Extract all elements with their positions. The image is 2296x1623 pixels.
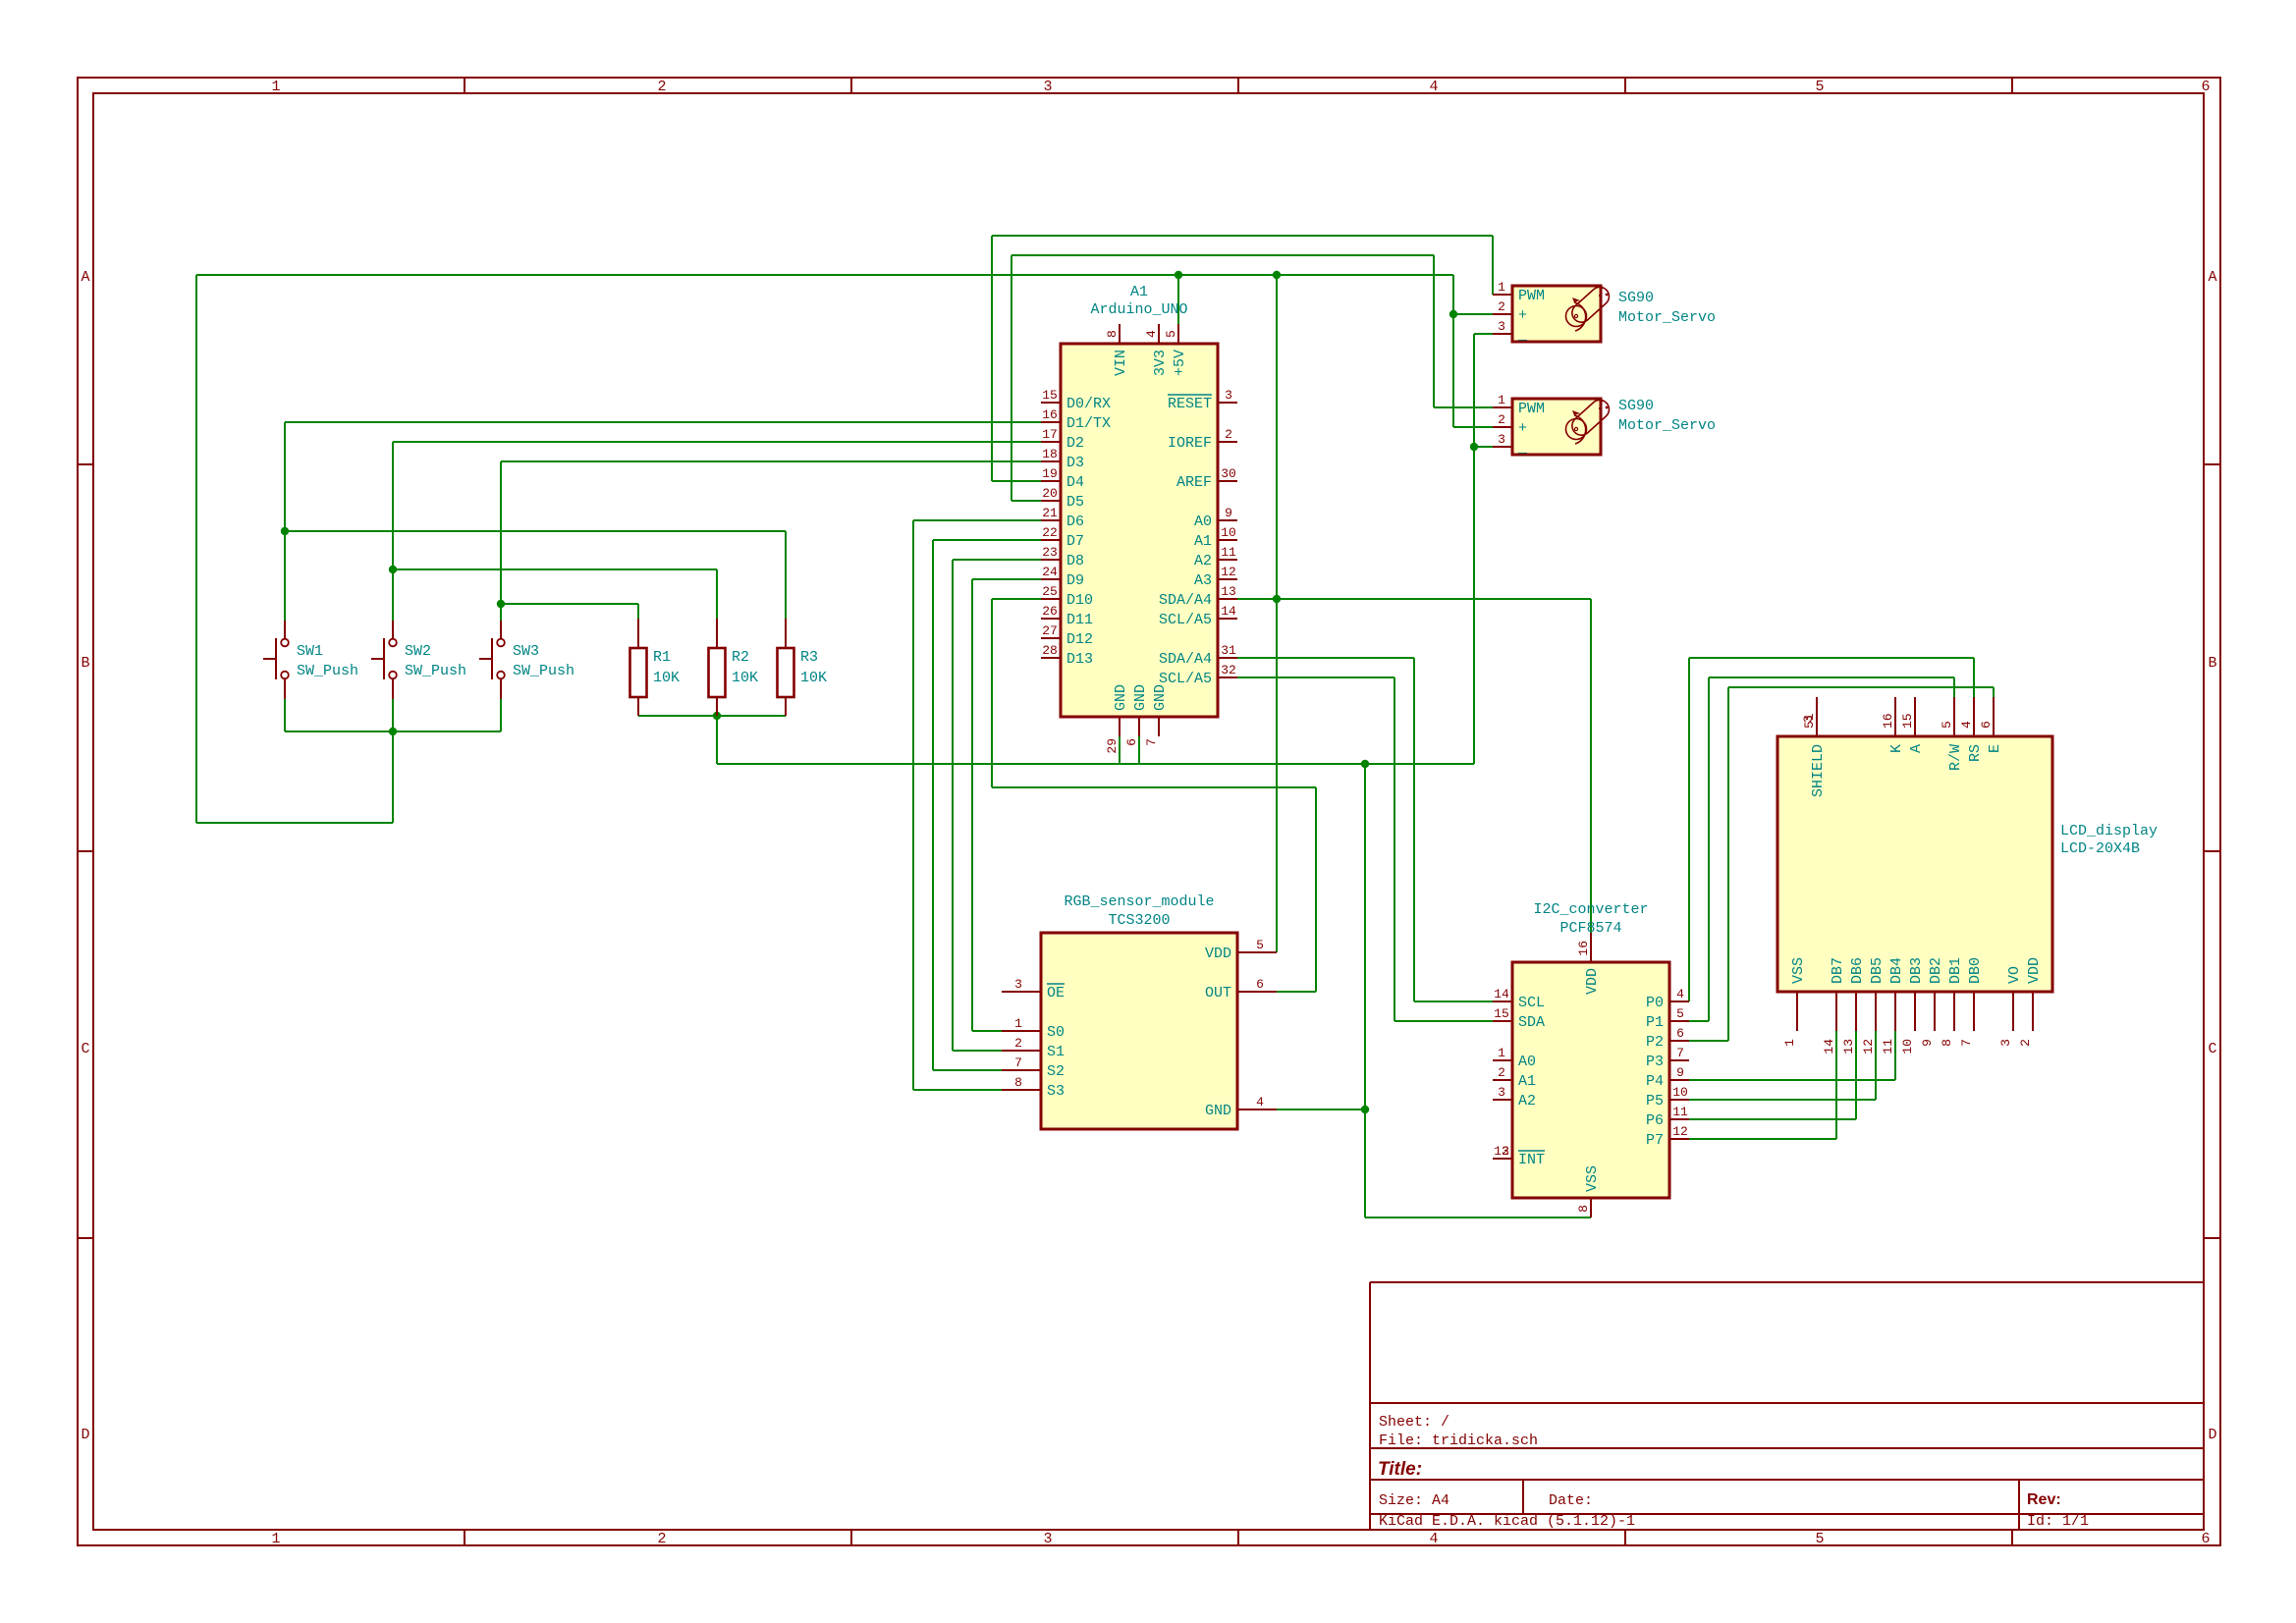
svg-text:1: 1	[1014, 1016, 1022, 1031]
overline INT	[1518, 1150, 1545, 1152]
svg-text:OE: OE	[1047, 985, 1065, 1001]
wire P4 horizontal	[1689, 1079, 1895, 1081]
pin 8 DB1	[1953, 992, 1955, 1031]
svg-text:+: +	[1518, 420, 1527, 437]
wire SW2 bottom	[392, 699, 394, 731]
pin 14 SCL	[1493, 1001, 1512, 1002]
servo motor icon	[1566, 419, 1587, 440]
pin 6 GND	[1138, 717, 1140, 736]
wire SW3 bottom	[500, 699, 502, 731]
frame row tick left	[78, 850, 93, 852]
wire D3 horizontal	[501, 460, 1041, 462]
pin 11 P6	[1669, 1118, 1689, 1120]
wire D6 vertical to S3	[912, 520, 914, 1090]
svg-text:D2: D2	[1066, 435, 1084, 452]
wire TCS3200 GND to GND vertical	[1277, 1109, 1365, 1110]
frame column tick top	[1237, 78, 1239, 93]
wire Arduino pin32 SCL horizontal	[1237, 676, 1394, 678]
svg-text:DB7: DB7	[1830, 957, 1846, 984]
wire SW2 branch to R2	[393, 568, 717, 570]
svg-text:D6: D6	[1066, 514, 1084, 530]
svg-text:16: 16	[1042, 407, 1058, 422]
pin 51 SHIELD	[1816, 697, 1818, 736]
wire down to R2 top	[716, 569, 718, 619]
svg-text:5: 5	[1815, 1531, 1824, 1547]
wire P0 vertical	[1688, 658, 1690, 1001]
svg-text:2: 2	[657, 1531, 666, 1547]
svg-text:1: 1	[1498, 1046, 1505, 1060]
svg-text:4: 4	[1959, 721, 1974, 729]
pin 1 A0	[1493, 1059, 1512, 1061]
svg-text:Arduino_UNO: Arduino_UNO	[1090, 301, 1187, 318]
svg-text:11: 11	[1881, 1039, 1895, 1055]
svg-text:TCS3200: TCS3200	[1108, 912, 1170, 929]
svg-text:A2: A2	[1194, 553, 1212, 569]
pin 2 +	[1493, 426, 1512, 428]
wire +5V down to TCS3200 VDD	[1276, 275, 1278, 952]
pin 8 VSS	[1590, 1198, 1592, 1217]
pin 31 SDA/A4	[1218, 657, 1237, 659]
wire D5-PWM horizontal	[1011, 254, 1434, 256]
svg-text:P5: P5	[1646, 1093, 1664, 1109]
svg-text:2: 2	[2018, 1039, 2033, 1047]
wire D4-PWM drop to servo M1 pin1	[1492, 236, 1494, 295]
pin 4 3V3	[1158, 324, 1160, 344]
wire P0 to RS horizontal	[1689, 657, 1974, 659]
svg-text:3: 3	[1014, 977, 1022, 992]
junction	[1175, 271, 1182, 279]
svg-text:GND: GND	[1132, 684, 1149, 711]
svg-text:3V3: 3V3	[1152, 350, 1169, 376]
svg-text:4: 4	[1256, 1095, 1264, 1109]
svg-text:10K: 10K	[800, 670, 827, 686]
svg-text:29: 29	[1105, 738, 1120, 754]
svg-text:10: 10	[1221, 525, 1236, 540]
svg-text:D3: D3	[1066, 455, 1084, 471]
frame column tick bottom	[464, 1530, 465, 1545]
pin 30 AREF	[1218, 480, 1237, 482]
svg-text:6: 6	[1979, 721, 1994, 729]
wire Arduino GND pin29 drop	[1119, 736, 1121, 764]
svg-text:DB1: DB1	[1947, 957, 1964, 984]
svg-text:D1/TX: D1/TX	[1066, 415, 1111, 432]
wire D10-OUT horizontal rail	[992, 786, 1316, 788]
svg-text:S3: S3	[1047, 1083, 1065, 1100]
svg-text:SW_Push: SW_Push	[405, 663, 466, 679]
wire SCL vertical	[1394, 677, 1395, 1021]
frame column tick bottom	[1624, 1530, 1626, 1545]
svg-text:DB6: DB6	[1849, 957, 1866, 984]
pin 6 OUT	[1237, 991, 1277, 993]
overline OE	[1047, 983, 1065, 985]
frame row tick right	[2204, 850, 2220, 852]
wire D8 horizontal	[953, 559, 1041, 561]
svg-text:SDA/A4: SDA/A4	[1159, 592, 1212, 609]
pin 25 D10	[1041, 598, 1061, 600]
svg-text:PWM: PWM	[1518, 288, 1545, 304]
svg-text:P1: P1	[1646, 1014, 1664, 1031]
svg-text:30: 30	[1221, 466, 1236, 481]
wire D10 horizontal	[992, 598, 1041, 600]
pin 9 P4	[1669, 1079, 1689, 1081]
pin 3 _	[1493, 333, 1512, 335]
wire P1 vertical	[1708, 677, 1710, 1021]
pin 12 DB5	[1875, 992, 1877, 1031]
wire +5V riser to switch common	[392, 731, 394, 823]
frame row tick left	[78, 1237, 93, 1239]
wire +5V drop to PCF8574 VDD pin	[1590, 599, 1592, 933]
junction	[281, 527, 289, 535]
svg-text:12: 12	[1221, 565, 1236, 579]
svg-text:S2: S2	[1047, 1063, 1065, 1080]
frame row tick right	[2204, 1237, 2220, 1239]
pin 1	[284, 621, 286, 639]
pin 13 INT	[1493, 1158, 1512, 1160]
svg-text:10: 10	[1900, 1039, 1915, 1055]
svg-text:VDD: VDD	[1584, 968, 1601, 995]
svg-text:SW3: SW3	[513, 643, 539, 660]
pin 10 P5	[1669, 1099, 1689, 1101]
wire D10 vertical	[991, 599, 993, 787]
svg-text:R/W: R/W	[1947, 744, 1964, 771]
junction	[1361, 1106, 1369, 1113]
pin 2	[637, 697, 639, 716]
svg-text:P6: P6	[1646, 1112, 1664, 1129]
svg-text:D11: D11	[1066, 612, 1093, 628]
svg-text:5: 5	[1815, 79, 1824, 95]
resistor R2 10K	[709, 619, 759, 716]
svg-text:24: 24	[1042, 565, 1058, 579]
svg-text:16: 16	[1576, 941, 1591, 956]
wire D6 horizontal	[913, 519, 1041, 521]
pin 7 DB0	[1973, 992, 1975, 1031]
svg-text:2: 2	[1225, 427, 1232, 442]
svg-text:A2: A2	[1518, 1093, 1536, 1109]
svg-text:Size: A4: Size: A4	[1379, 1492, 1449, 1509]
svg-text:4: 4	[1429, 1531, 1438, 1547]
svg-text:15: 15	[1900, 713, 1915, 729]
wire to OUT pin	[1277, 991, 1316, 993]
wire drop to LCD R/W pin	[1953, 677, 1955, 697]
svg-text:1: 1	[1498, 280, 1505, 295]
wire P2 to E horizontal	[1728, 686, 1994, 688]
svg-text:9: 9	[1676, 1065, 1684, 1080]
svg-text:DB3: DB3	[1908, 957, 1925, 984]
svg-text:B: B	[81, 655, 89, 672]
svg-text:28: 28	[1042, 643, 1058, 658]
wire resistor rail to GND rail	[716, 716, 718, 764]
rev divider	[2018, 1480, 2020, 1530]
svg-text:15: 15	[1042, 388, 1058, 403]
wire riser to LCD DB6	[1855, 1031, 1857, 1119]
svg-text:A: A	[81, 269, 89, 286]
servo motor icon	[1566, 306, 1587, 327]
wire P1 to R/W horizontal	[1709, 676, 1954, 678]
wire +5V bottom horizontal	[196, 822, 393, 824]
svg-text:Motor_Servo: Motor_Servo	[1618, 417, 1716, 434]
wire drop to LCD E pin	[1993, 687, 1995, 697]
svg-text:2: 2	[1498, 1065, 1505, 1080]
wire D5-PWM riser	[1011, 255, 1012, 501]
servo body	[1512, 286, 1601, 342]
wire GND horizontal rail	[717, 763, 1474, 765]
svg-text:DB4: DB4	[1888, 957, 1905, 984]
svg-text:SW_Push: SW_Push	[297, 663, 358, 679]
pin 15 A	[1914, 697, 1916, 736]
title block divider	[1370, 1479, 2204, 1481]
svg-text:LCD-20X4B: LCD-20X4B	[2060, 840, 2140, 857]
junction	[1449, 310, 1457, 318]
pin 10 DB3	[1914, 992, 1916, 1031]
svg-text:4: 4	[1144, 330, 1159, 338]
svg-text:1: 1	[271, 79, 280, 95]
wire D7 horizontal	[933, 539, 1041, 541]
wire D4-PWM to Arduino D4 pin	[992, 480, 1041, 482]
pin 8 VIN	[1119, 324, 1121, 344]
svg-text:DB5: DB5	[1869, 957, 1886, 984]
pin 3 OE	[1002, 991, 1041, 993]
svg-text:SW2: SW2	[405, 643, 431, 660]
switch SW1 SW_Push	[263, 621, 358, 699]
svg-text:8: 8	[1105, 330, 1120, 338]
wire D1/TX horizontal	[285, 421, 1041, 423]
svg-text:K: K	[1888, 744, 1905, 753]
svg-text:R1: R1	[653, 649, 671, 666]
svg-text:10K: 10K	[732, 670, 758, 686]
wire servo M2 pin3 stub	[1474, 446, 1493, 448]
pin 3 VO	[2012, 992, 2014, 1031]
title block divider	[1370, 1447, 2204, 1449]
pin 16 K	[1894, 697, 1896, 736]
wire P2 stub	[1689, 1040, 1728, 1042]
wire Arduino GND pin6 drop	[1138, 736, 1140, 764]
svg-text:SW_Push: SW_Push	[513, 663, 574, 679]
pin 2	[785, 697, 787, 716]
pin 21 D6	[1041, 519, 1061, 521]
pin 4 P0	[1669, 1001, 1689, 1002]
wire P2 vertical	[1727, 687, 1729, 1041]
pin 2 IOREF	[1218, 441, 1237, 443]
svg-text:PWM: PWM	[1518, 401, 1545, 417]
wire servo M1 pin3 stub	[1474, 333, 1493, 335]
frame column tick bottom	[1237, 1530, 1239, 1545]
wire +5V branch to PCF8574 VDD	[1277, 598, 1591, 600]
pin 2	[284, 679, 286, 700]
junction	[1470, 443, 1478, 451]
svg-text:11: 11	[1221, 545, 1236, 560]
svg-text:6: 6	[1256, 977, 1264, 992]
svg-text:SHIELD: SHIELD	[1810, 744, 1827, 797]
svg-text:Title:: Title:	[1378, 1459, 1422, 1480]
junction	[1361, 760, 1369, 768]
wire D2 down to SW2	[392, 442, 394, 621]
wire SW3 branch to R1	[501, 603, 638, 605]
svg-text:D8: D8	[1066, 553, 1084, 569]
wire to S1 pin	[953, 1050, 1002, 1052]
wire D3 down to SW3	[500, 461, 502, 621]
pin 9 DB2	[1934, 992, 1936, 1031]
frame column tick bottom	[2011, 1530, 2013, 1545]
svg-text:D13: D13	[1066, 651, 1093, 668]
svg-text:D0/RX: D0/RX	[1066, 396, 1111, 412]
title block top	[1370, 1281, 2204, 1283]
pin 1	[500, 621, 502, 639]
svg-text:17: 17	[1042, 427, 1058, 442]
svg-text:7: 7	[1144, 738, 1159, 746]
svg-text:14: 14	[1221, 604, 1236, 619]
LCD display U LCD-20X4B	[1777, 697, 2158, 1055]
RGB sensor module U TCS3200	[1002, 893, 1277, 1129]
wire +5V to Arduino +5V pin	[1177, 275, 1179, 324]
svg-text:6: 6	[1676, 1026, 1684, 1041]
svg-text:File: tridicka.sch: File: tridicka.sch	[1379, 1433, 1538, 1449]
pin 2 A1	[1493, 1079, 1512, 1081]
svg-text:Date:: Date:	[1549, 1492, 1593, 1509]
svg-text:C: C	[2208, 1041, 2216, 1057]
svg-text:S1: S1	[1047, 1044, 1065, 1060]
wire D1 down to SW1	[284, 422, 286, 621]
svg-text:D12: D12	[1066, 631, 1093, 648]
wire D5-PWM to Arduino D5 pin	[1011, 500, 1041, 502]
svg-text:KiCad E.D.A. kicad (5.1.12)-1: KiCad E.D.A. kicad (5.1.12)-1	[1379, 1513, 1635, 1530]
svg-text:A0: A0	[1194, 514, 1212, 530]
title block divider	[1370, 1513, 2204, 1515]
svg-text:15: 15	[1494, 1006, 1509, 1021]
wire to S3 pin	[913, 1089, 1002, 1091]
svg-text:VSS: VSS	[1790, 957, 1807, 984]
resistor R3 10K	[778, 619, 828, 716]
switch SW3 SW_Push	[479, 621, 574, 699]
svg-text:21: 21	[1042, 506, 1058, 520]
size/date divider	[1522, 1480, 1524, 1514]
svg-text:27: 27	[1042, 623, 1058, 638]
pin 3 _	[1493, 446, 1512, 448]
Arduino body	[1061, 344, 1218, 717]
wire down to R3 top	[785, 531, 787, 619]
svg-text:12: 12	[1861, 1039, 1876, 1055]
pin 7 GND	[1158, 717, 1160, 736]
pin 1	[785, 619, 787, 648]
wire +5V horizontal rail	[196, 274, 1453, 276]
svg-text:B: B	[2208, 655, 2216, 672]
pin 6 E	[1993, 697, 1995, 736]
pin 1	[637, 619, 639, 648]
svg-text:P0: P0	[1646, 995, 1664, 1011]
frame row tick right	[2204, 463, 2220, 465]
frame column tick bottom	[850, 1530, 852, 1545]
pin 28 D13	[1041, 657, 1061, 659]
svg-text:VDD: VDD	[2026, 957, 2043, 984]
svg-text:5: 5	[1164, 330, 1178, 338]
wire to S2 pin	[933, 1069, 1002, 1071]
pin 4 RS	[1973, 697, 1975, 736]
pin 11 A2	[1218, 559, 1237, 561]
svg-text:VDD: VDD	[1205, 946, 1231, 962]
pin 3 RESET	[1218, 402, 1237, 404]
svg-text:A3: A3	[1194, 572, 1212, 589]
svg-text:+: +	[1518, 307, 1527, 324]
pin 18 D3	[1041, 460, 1061, 462]
pin 1 PWM	[1493, 406, 1512, 408]
pin 16 VDD	[1590, 933, 1592, 962]
pin 15 D0/RX	[1041, 402, 1061, 404]
svg-text:D7: D7	[1066, 533, 1084, 550]
wire D9 horizontal	[972, 578, 1041, 580]
wire D4-PWM horizontal	[992, 235, 1493, 237]
junction	[1273, 271, 1281, 279]
svg-text:SDA/A4: SDA/A4	[1159, 651, 1212, 668]
pin 8 S3	[1002, 1089, 1041, 1091]
svg-text:3: 3	[1801, 715, 1816, 723]
svg-text:26: 26	[1042, 604, 1058, 619]
pin 2	[392, 679, 394, 700]
svg-text:6: 6	[2201, 1531, 2210, 1547]
overline RESET	[1168, 394, 1212, 396]
svg-text:7: 7	[1014, 1055, 1022, 1070]
svg-text:22: 22	[1042, 525, 1058, 540]
svg-text:A1: A1	[1518, 1073, 1536, 1090]
pin 10 A1	[1218, 539, 1237, 541]
svg-text:R3: R3	[800, 649, 818, 666]
svg-text:D10: D10	[1066, 592, 1093, 609]
svg-text:RESET: RESET	[1168, 396, 1212, 412]
svg-text:18: 18	[1042, 447, 1058, 461]
svg-text:3: 3	[1498, 1085, 1505, 1100]
pin 23 D8	[1041, 559, 1061, 561]
svg-text:5: 5	[1676, 1006, 1684, 1021]
pin 17 D2	[1041, 441, 1061, 443]
resistor R1 10K	[630, 619, 681, 716]
wire D5-PWM drop to servo M2 pin1	[1433, 255, 1435, 407]
wire SW1 branch to R3	[285, 530, 786, 532]
pin 12 P7	[1669, 1138, 1689, 1140]
svg-text:32: 32	[1221, 663, 1236, 677]
switch SW2 SW_Push	[371, 621, 466, 699]
wire to PCF8574 SCL pin	[1414, 1001, 1493, 1002]
wire Arduino pin13 stub to +5V branch	[1237, 598, 1277, 600]
pin 2 S1	[1002, 1050, 1041, 1052]
pin 12 A3	[1218, 578, 1237, 580]
svg-text:C: C	[81, 1041, 89, 1057]
svg-text:P4: P4	[1646, 1073, 1664, 1090]
svg-text:10: 10	[1672, 1085, 1688, 1100]
svg-text:23: 23	[1042, 545, 1058, 560]
wire to PCF8574 SDA pin	[1394, 1020, 1493, 1022]
svg-text:3: 3	[1043, 1531, 1052, 1547]
pin 7 S2	[1002, 1069, 1041, 1071]
svg-text:10K: 10K	[653, 670, 680, 686]
svg-text:3: 3	[1498, 432, 1505, 447]
wire D8 vertical to S1	[952, 560, 954, 1051]
svg-text:8: 8	[1940, 1039, 1954, 1047]
svg-text:9: 9	[1920, 1039, 1935, 1047]
title block left	[1369, 1282, 1371, 1530]
servo M2 SG90	[1493, 393, 1716, 457]
wire GND vertical to PCF8574 VSS	[1364, 764, 1366, 1217]
wire SDA vertical	[1413, 658, 1415, 1001]
pin 1	[392, 621, 394, 639]
wire D4-PWM riser	[991, 236, 993, 481]
wire GND to VSS pin	[1365, 1217, 1591, 1218]
junction	[497, 600, 505, 608]
wire +5V to servo M1 pin2	[1453, 313, 1493, 315]
Arduino U A1 component	[1041, 284, 1237, 754]
svg-text:SCL: SCL	[1518, 995, 1545, 1011]
svg-text:OUT: OUT	[1205, 985, 1231, 1001]
svg-text:IOREF: IOREF	[1168, 435, 1212, 452]
svg-text:14: 14	[1494, 987, 1509, 1001]
svg-text:8: 8	[1014, 1075, 1022, 1090]
